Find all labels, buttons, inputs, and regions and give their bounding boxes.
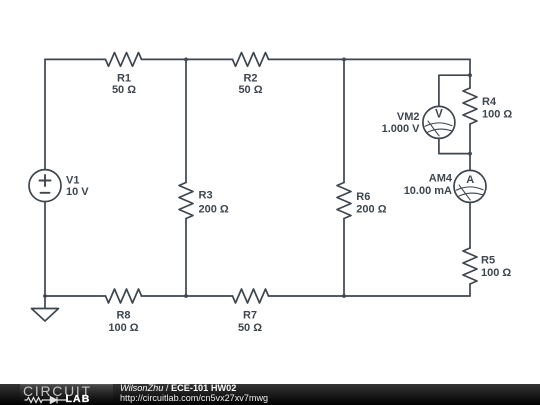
resistor R1 bbox=[106, 53, 142, 67]
svg-text:R2: R2 bbox=[243, 73, 257, 85]
svg-text:R6: R6 bbox=[356, 191, 370, 203]
svg-text:10 V: 10 V bbox=[66, 186, 89, 198]
node top R6 bbox=[342, 58, 346, 62]
wire R6 branch bbox=[343, 59, 345, 296]
ground bbox=[32, 309, 59, 322]
resistor R8 bbox=[106, 289, 142, 303]
node voltmeter top bbox=[468, 73, 472, 77]
svg-text:50 Ω: 50 Ω bbox=[238, 322, 262, 334]
svg-text:1.000 V: 1.000 V bbox=[382, 123, 421, 135]
voltmeter VM2 bbox=[423, 106, 455, 138]
voltage source V1 bbox=[29, 170, 61, 202]
wire bottom rail bbox=[45, 295, 470, 297]
svg-text:50 Ω: 50 Ω bbox=[112, 84, 136, 96]
wire left rail bbox=[44, 59, 46, 296]
svg-text:50 Ω: 50 Ω bbox=[238, 84, 262, 96]
svg-text:R8: R8 bbox=[116, 310, 130, 322]
CircuitLab logo bbox=[20, 384, 113, 405]
wire top rail bbox=[45, 58, 470, 60]
resistor R6 bbox=[337, 183, 351, 219]
svg-text:R4: R4 bbox=[482, 96, 497, 108]
node top R3 bbox=[184, 58, 188, 62]
svg-text:V1: V1 bbox=[66, 174, 79, 186]
svg-text:A: A bbox=[466, 174, 474, 186]
footer url text bbox=[120, 393, 268, 403]
node bottom R6 bbox=[342, 294, 346, 298]
svg-text:10.00 mA: 10.00 mA bbox=[404, 185, 452, 197]
svg-text:AM4: AM4 bbox=[429, 173, 453, 185]
resistor R4 bbox=[463, 88, 477, 124]
svg-text:R1: R1 bbox=[117, 73, 131, 85]
resistor R3 bbox=[179, 183, 193, 219]
svg-text:200 Ω: 200 Ω bbox=[199, 204, 229, 216]
logo resistor-diode glyph bbox=[25, 397, 67, 404]
node ground bbox=[43, 294, 47, 298]
svg-text:100 Ω: 100 Ω bbox=[481, 267, 511, 279]
footer title text bbox=[120, 383, 236, 393]
resistor R7 bbox=[233, 289, 269, 303]
node bottom R3 bbox=[184, 294, 188, 298]
wire right rail bbox=[469, 59, 471, 296]
svg-text:R5: R5 bbox=[481, 255, 495, 267]
svg-text:R3: R3 bbox=[199, 190, 213, 202]
svg-text:R7: R7 bbox=[243, 310, 257, 322]
footer bar bbox=[0, 384, 540, 405]
svg-text:100 Ω: 100 Ω bbox=[108, 322, 138, 334]
wire R3 branch bbox=[185, 59, 187, 296]
resistor R2 bbox=[233, 53, 269, 67]
svg-text:VM2: VM2 bbox=[397, 111, 420, 123]
svg-text:100 Ω: 100 Ω bbox=[482, 108, 512, 120]
wire ground stub bbox=[44, 296, 46, 309]
svg-text:V: V bbox=[435, 108, 443, 120]
svg-text:200 Ω: 200 Ω bbox=[356, 203, 386, 215]
wire voltmeter loop bbox=[439, 75, 470, 153]
node voltmeter bottom bbox=[468, 152, 472, 156]
resistor R5 bbox=[463, 248, 477, 284]
ammeter AM4 bbox=[454, 170, 486, 202]
